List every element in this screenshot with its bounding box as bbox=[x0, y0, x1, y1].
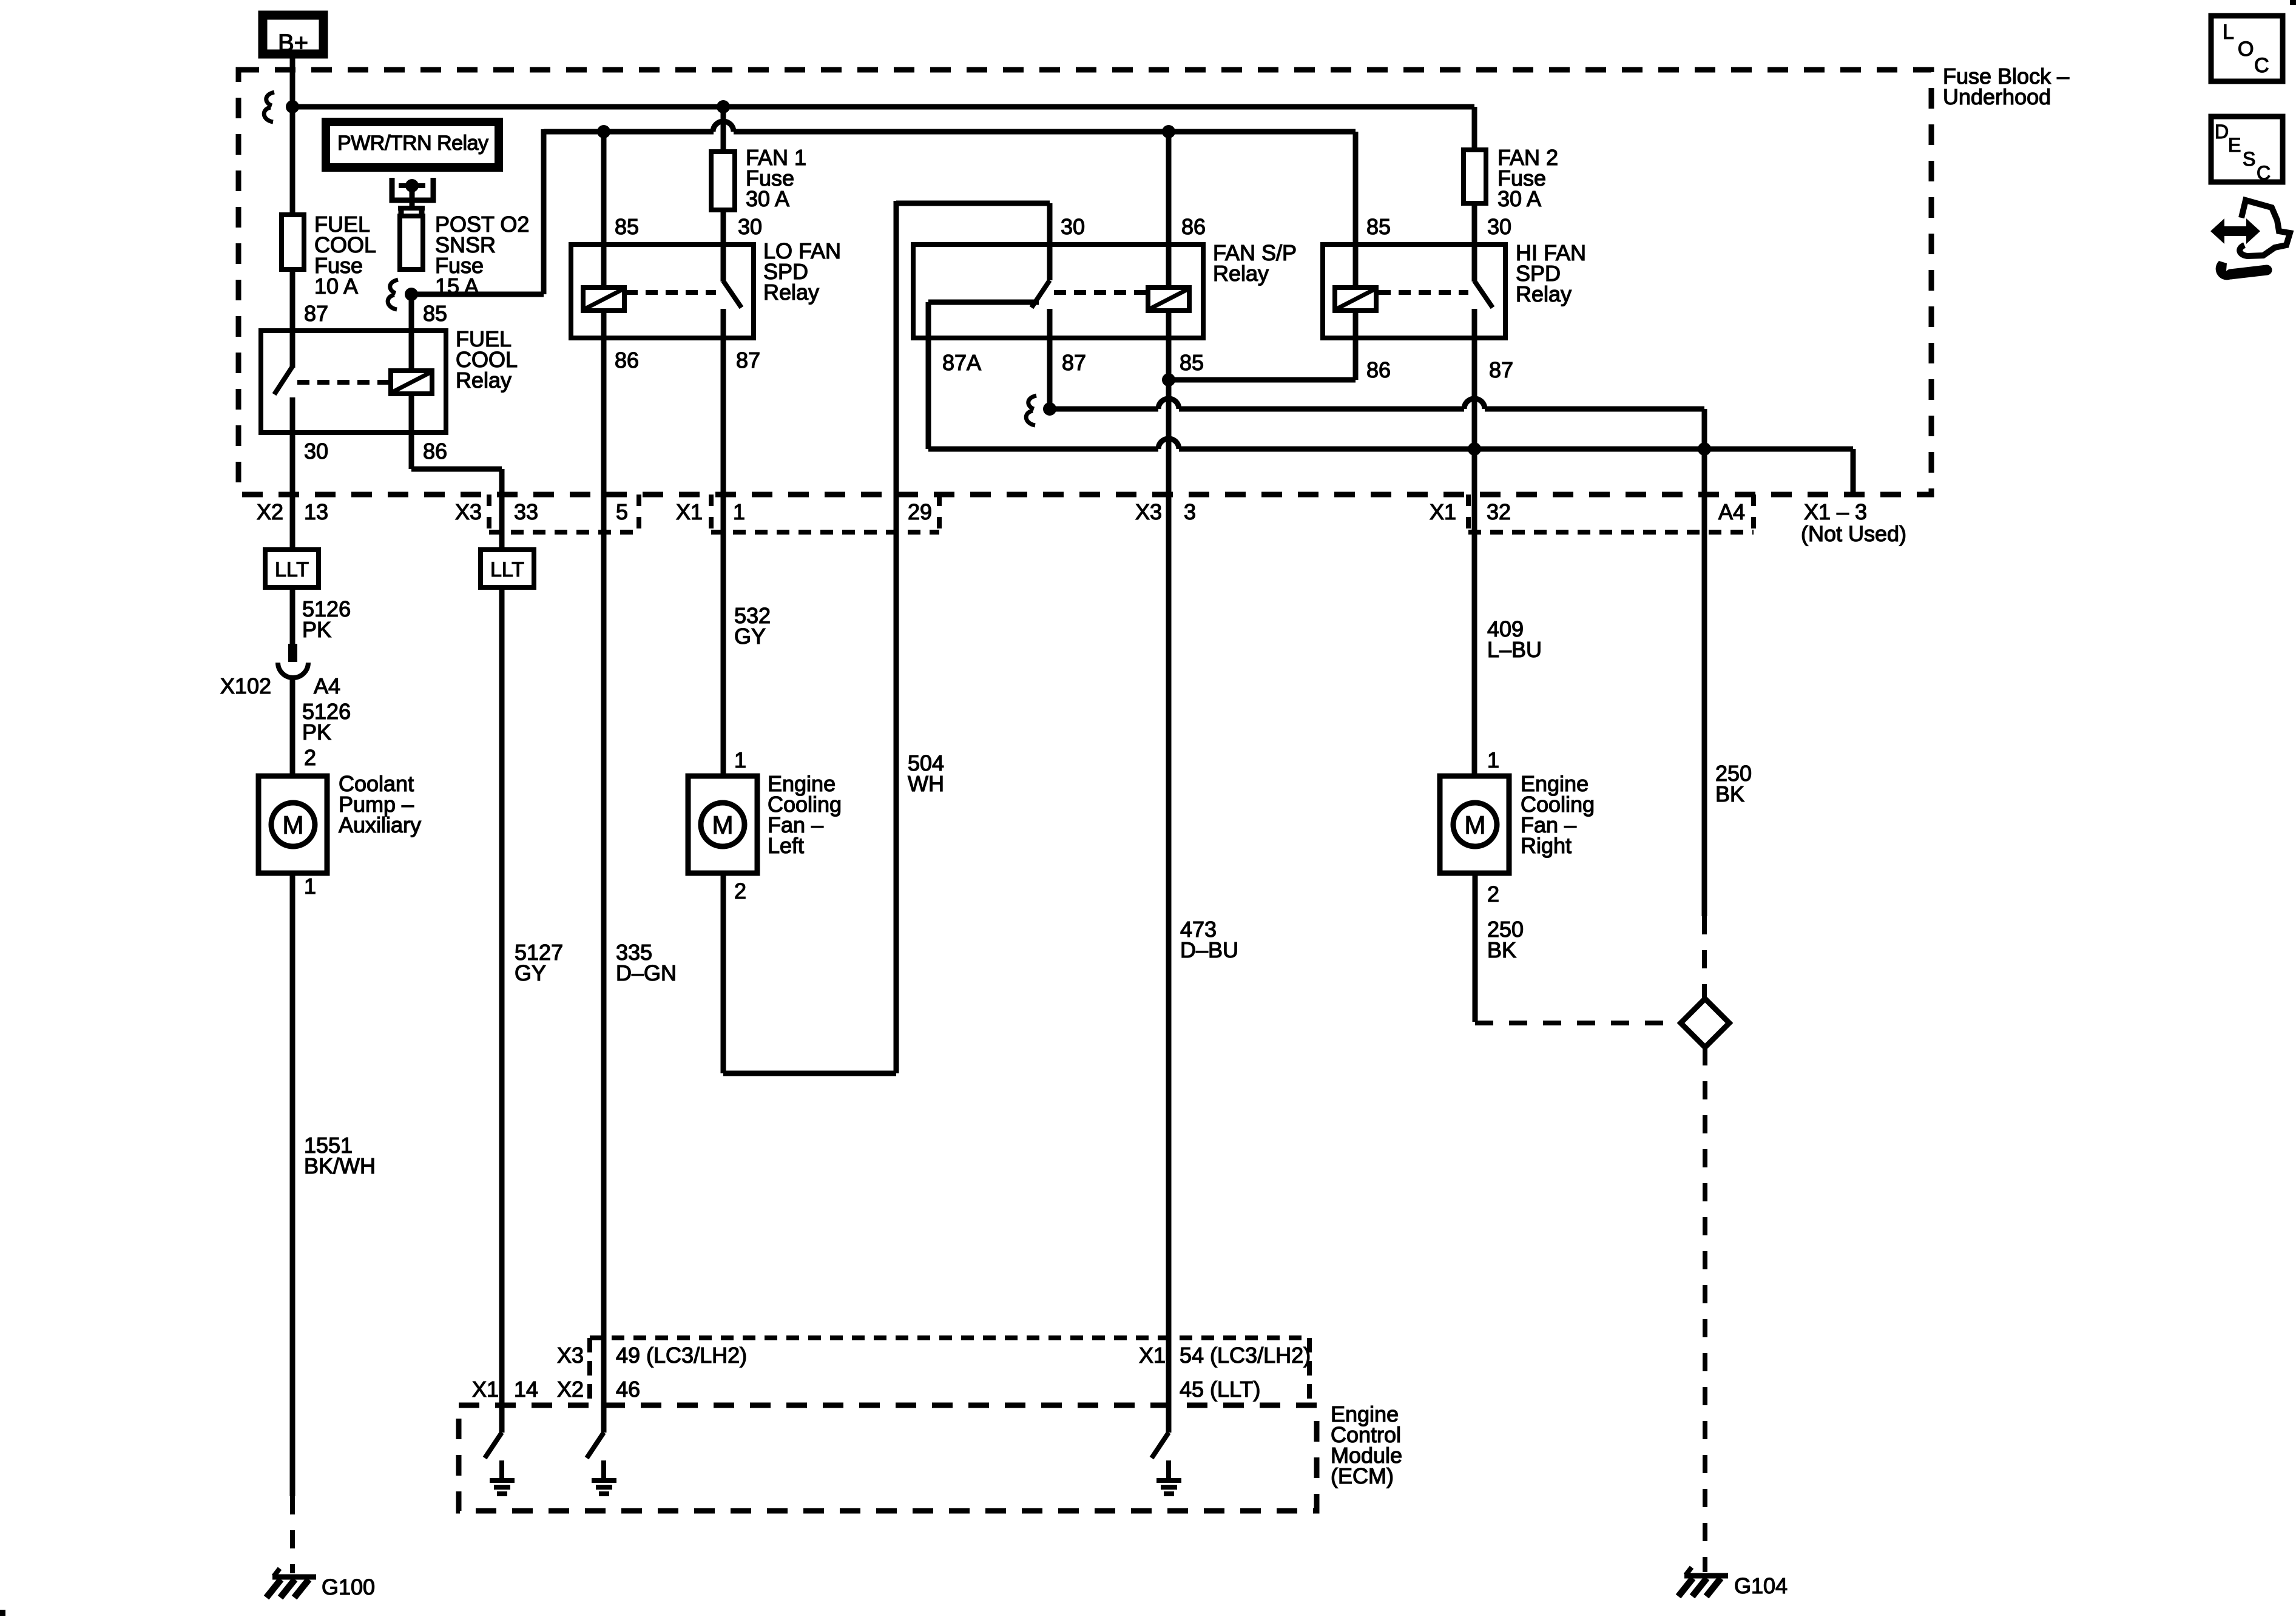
label: circuit 5126 PK lower bbox=[302, 699, 351, 744]
FAN S/P relay pin 30 feed jog from X1-29 line bbox=[896, 203, 1050, 280]
svg-text:BK/WH: BK/WH bbox=[304, 1153, 376, 1178]
svg-text:32: 32 bbox=[1487, 499, 1511, 524]
ECM internal switch to ground for 46/49 bbox=[587, 1433, 604, 1458]
wire-continues hook at left of B+ bus bbox=[264, 92, 274, 122]
label: FAN 1 Fuse 30 A bbox=[746, 145, 806, 211]
label: FAN S/P relay pins 87A 87 85 bbox=[942, 350, 1204, 375]
labels: connector pins X3 3 bbox=[1135, 499, 1196, 524]
wire: X1-29 / 504 WH circuit vertical bbox=[894, 201, 899, 1073]
FUEL COOL relay pin 86 wire jog to X3-33 bbox=[411, 394, 502, 550]
svg-text:87: 87 bbox=[736, 348, 760, 373]
label: FAN S/P relay pins 30 86 bbox=[1061, 214, 1206, 239]
FUEL COOL relay dashed actuator link bbox=[297, 380, 388, 385]
FAN S/P relay coil pin 85 wire to X3-3 and ECM bbox=[1166, 311, 1172, 1433]
relay K3: FAN S/P Relay box bbox=[913, 245, 1203, 338]
PWR/TRN Relay label box bbox=[326, 122, 499, 167]
FAN S/P relay pin 87A wire down bbox=[926, 302, 931, 449]
svg-text:30 A: 30 A bbox=[746, 186, 789, 211]
label: FUEL COOL Relay pins 87 85 bbox=[304, 301, 447, 326]
svg-text:86: 86 bbox=[423, 439, 447, 464]
B+ power terminal bbox=[263, 15, 323, 56]
svg-text:33: 33 bbox=[514, 499, 538, 524]
svg-text:Relay: Relay bbox=[1516, 282, 1572, 306]
DESC reference box bbox=[2211, 116, 2283, 184]
svg-text:Underhood: Underhood bbox=[1943, 84, 2051, 109]
labels: connector pins X3 33 5 bbox=[455, 499, 628, 524]
label: pump pin 2 bbox=[304, 745, 316, 770]
wire: 5126 PK from LLT to X102 bbox=[290, 587, 295, 645]
relay K2: LO FAN SPD Relay box bbox=[571, 245, 754, 338]
svg-text:X1: X1 bbox=[676, 499, 703, 524]
wire-continues hook left of FAN S/P 87 junction bbox=[1026, 396, 1036, 425]
label: FAN S/P Relay name bbox=[1213, 240, 1297, 286]
svg-text:D–GN: D–GN bbox=[616, 960, 677, 985]
in-line connector X102 pin A4 bbox=[278, 644, 308, 678]
svg-text:Relay: Relay bbox=[1213, 261, 1269, 286]
svg-text:PK: PK bbox=[302, 720, 331, 744]
label: POST O2 SNSR Fuse 15 A bbox=[435, 212, 529, 299]
svg-text:LLT: LLT bbox=[275, 558, 309, 581]
fuse: POST O2 SNSR Fuse 15 A bbox=[400, 216, 423, 269]
svg-text:M: M bbox=[283, 811, 304, 839]
label: right fan pin 1 bbox=[1487, 748, 1499, 772]
labels: ECM pins X1 14 X2 46 / 45 (LLT) bbox=[472, 1377, 1260, 1402]
svg-text:X1 – 3: X1 – 3 bbox=[1804, 499, 1867, 524]
ECM internal ground 2 bbox=[592, 1460, 616, 1494]
LO FAN relay pin 30 stub from FAN 1 fuse bbox=[721, 210, 726, 282]
wire: 5127 GY from LLT to ECM X1-14 bbox=[499, 587, 505, 1433]
label: FUEL COOL Relay name bbox=[456, 326, 518, 393]
labels: connector pin A4 bbox=[1718, 499, 1745, 524]
svg-text:L: L bbox=[2223, 21, 2234, 44]
icon: vehicle outline bbox=[2240, 200, 2290, 256]
svg-text:85: 85 bbox=[423, 301, 447, 326]
label: G104 bbox=[1734, 1573, 1788, 1598]
dotted bracket around pins 1 and 29 bbox=[711, 495, 939, 532]
labels: connector pins X2 13 bbox=[257, 499, 328, 524]
svg-text:86: 86 bbox=[615, 348, 639, 373]
wire: 250 BK dashed to splice bbox=[1475, 1021, 1680, 1025]
svg-text:(ECM): (ECM) bbox=[1331, 1463, 1394, 1488]
svg-text:D–BU: D–BU bbox=[1180, 937, 1238, 962]
svg-text:14: 14 bbox=[514, 1377, 538, 1402]
svg-text:86: 86 bbox=[1366, 357, 1391, 382]
svg-text:2: 2 bbox=[1487, 882, 1499, 906]
label: circuit 250 BK at right fan bbox=[1487, 917, 1524, 962]
svg-text:30: 30 bbox=[738, 214, 762, 239]
svg-text:85: 85 bbox=[615, 214, 639, 239]
LO FAN relay pin 86 wire to X1-5 and ECM bbox=[601, 311, 607, 1433]
svg-text:PWR/TRN Relay: PWR/TRN Relay bbox=[337, 132, 488, 155]
FUEL COOL relay switch blade bbox=[274, 366, 292, 394]
wire: 1551 BK/WH dashed tail bbox=[290, 1496, 295, 1573]
FUEL COOL relay coil bbox=[391, 371, 432, 394]
svg-text:2: 2 bbox=[734, 879, 746, 903]
svg-text:M: M bbox=[1465, 811, 1486, 839]
LO FAN relay switch blade bbox=[723, 281, 741, 308]
svg-text:30 A: 30 A bbox=[1497, 186, 1541, 211]
relay K4: HI FAN SPD Relay box bbox=[1323, 245, 1505, 338]
label: circuit 1551 BK/WH bbox=[304, 1133, 376, 1178]
svg-text:15 A: 15 A bbox=[435, 274, 479, 299]
svg-text:BK: BK bbox=[1715, 781, 1744, 806]
node: FAN S/P pin 87 junction bbox=[1043, 402, 1056, 416]
dotted bracket around pins 32 and A4 bbox=[1468, 495, 1754, 532]
label: HI FAN SPD Relay name bbox=[1516, 240, 1586, 306]
label: circuit 5126 PK upper bbox=[302, 596, 351, 642]
label: Fuse Block - Underhood bbox=[1943, 64, 2069, 109]
LOC reference box bbox=[2211, 16, 2283, 81]
label: Engine Control Module (ECM) bbox=[1331, 1402, 1402, 1488]
motor M3: Engine Cooling Fan - Right bbox=[1440, 776, 1509, 873]
FAN S/P relay 87A contact bbox=[928, 300, 1039, 305]
fuse block dashed border (Fuse Block - Underhood) bbox=[238, 70, 1931, 495]
label: HI FAN relay pins 86 87 bbox=[1366, 357, 1513, 382]
ECM upper connector dotted strip bbox=[590, 1338, 1309, 1405]
ground G104 symbol bbox=[1678, 1567, 1728, 1596]
svg-text:GY: GY bbox=[734, 624, 766, 649]
node: B+ bus tap junction bbox=[286, 100, 299, 113]
svg-text:Relay: Relay bbox=[763, 280, 819, 305]
dotted bracket around pins 33 and 5 bbox=[489, 495, 639, 532]
label: circuit 409 L-BU bbox=[1487, 616, 1542, 662]
node: junction 87A wire with A4 ground wire bbox=[1698, 442, 1711, 456]
svg-text:13: 13 bbox=[304, 499, 328, 524]
icon: component locator (double arrow) bbox=[2210, 218, 2260, 244]
relay K1: FUEL COOL Relay box bbox=[261, 331, 446, 433]
label: Engine Cooling Fan - Right bbox=[1521, 771, 1595, 858]
motor M1: Coolant Pump - Auxiliary bbox=[258, 776, 327, 873]
HI FAN relay coil bbox=[1335, 288, 1376, 311]
ECM internal switch to ground for X1-14 bbox=[485, 1433, 502, 1458]
HI FAN relay switch blade bbox=[1474, 281, 1493, 308]
svg-text:GY: GY bbox=[515, 960, 546, 985]
svg-text:C: C bbox=[2254, 54, 2269, 77]
node: junction 87A wire with HI FAN 87 wire bbox=[1468, 442, 1481, 456]
svg-text:G104: G104 bbox=[1734, 1573, 1788, 1598]
node: LO FAN relay coil tap on secondary bus bbox=[597, 125, 610, 138]
label: LO FAN relay pins 85 30 bbox=[615, 214, 762, 239]
wire: left fan return to X1-29 (504 WH) bbox=[723, 873, 896, 1073]
svg-text:1: 1 bbox=[1487, 748, 1499, 772]
svg-text:X3: X3 bbox=[455, 499, 482, 524]
node: POST O2 fuse junction bbox=[405, 288, 418, 301]
svg-text:85: 85 bbox=[1366, 214, 1391, 239]
svg-text:3: 3 bbox=[1184, 499, 1196, 524]
labels: connector pin X1-3 Not Used bbox=[1801, 499, 1906, 546]
svg-text:87: 87 bbox=[1062, 350, 1086, 375]
wire: PWR/TRN secondary bus bbox=[411, 121, 1356, 294]
label: circuit 504 WH bbox=[908, 751, 944, 796]
splice diamond on 250 BK bbox=[1681, 999, 1729, 1047]
ground G100 symbol bbox=[266, 1568, 316, 1598]
HI FAN relay pin 30 stub from FAN 2 fuse bbox=[1472, 203, 1477, 282]
labels: connector pins X1 32 bbox=[1430, 499, 1511, 524]
label: FAN 2 Fuse 30 A bbox=[1497, 145, 1558, 211]
wire: 5126 PK from X102 to pump bbox=[290, 677, 295, 776]
wire: X2-13 / 5126 PK drop from FUEL COOL 30 bbox=[290, 433, 295, 550]
label: Engine Cooling Fan - Left bbox=[768, 771, 842, 858]
svg-text:L–BU: L–BU bbox=[1487, 637, 1542, 662]
svg-text:X1: X1 bbox=[1430, 499, 1456, 524]
label: Coolant Pump - Auxiliary bbox=[339, 771, 421, 837]
svg-text:O: O bbox=[2238, 38, 2254, 61]
wire: 1551 BK/WH to G100 (solid part) bbox=[290, 873, 295, 1496]
wire: A4 250 BK vertical (solid part) bbox=[1702, 449, 1707, 916]
LLT option box on circuit 5127 bbox=[481, 550, 534, 587]
svg-text:X102: X102 bbox=[220, 673, 271, 698]
svg-text:29: 29 bbox=[908, 499, 932, 524]
svg-text:A4: A4 bbox=[1718, 499, 1745, 524]
label: circuit 335 D-GN bbox=[616, 940, 677, 985]
wire: FAN S/P 87A to X1-3 (horizontal with hop) bbox=[928, 439, 1853, 495]
svg-text:45 (LLT): 45 (LLT) bbox=[1180, 1377, 1260, 1402]
label: FUEL COOL Fuse 10 A bbox=[314, 212, 376, 299]
LO FAN relay coil bbox=[583, 288, 624, 311]
svg-text:49 (LC3/LH2): 49 (LC3/LH2) bbox=[616, 1343, 747, 1368]
svg-text:M: M bbox=[712, 811, 734, 839]
svg-text:E: E bbox=[2228, 134, 2241, 156]
LO FAN relay coil pin 85 wire bbox=[601, 132, 607, 288]
svg-text:X1: X1 bbox=[1139, 1343, 1166, 1368]
svg-text:Relay: Relay bbox=[456, 368, 512, 393]
svg-text:X3: X3 bbox=[1135, 499, 1162, 524]
connector bar with junction dot above POST O2 fuse bbox=[399, 179, 425, 208]
label: circuit 532 GY bbox=[734, 603, 771, 649]
ECM internal ground 3 bbox=[1156, 1460, 1181, 1494]
fuse: FAN 2 Fuse 30 A bbox=[1464, 150, 1486, 203]
LO FAN relay pin 87 wire to left fan bbox=[721, 309, 726, 776]
svg-text:D: D bbox=[2215, 121, 2229, 143]
svg-text:Right: Right bbox=[1521, 833, 1572, 858]
HI FAN relay pin 86 wire to FAN S/P 85 node bbox=[1169, 311, 1356, 380]
svg-text:2: 2 bbox=[304, 745, 316, 770]
label: LO FAN relay pins 86 87 bbox=[615, 348, 760, 373]
fuse clip above POST O2 fuse bbox=[398, 208, 425, 216]
label: circuit 250 BK at A4 drop bbox=[1715, 761, 1752, 806]
FAN S/P relay pin 87 stub bbox=[1047, 309, 1053, 409]
svg-text:30: 30 bbox=[1061, 214, 1085, 239]
FAN S/P relay switch blade bbox=[1032, 280, 1050, 308]
svg-text:54 (LC3/LH2): 54 (LC3/LH2) bbox=[1180, 1343, 1311, 1368]
svg-text:(Not Used): (Not Used) bbox=[1801, 521, 1906, 546]
connector symbol: PWR/TRN relay fuse socket (U bracket) bbox=[392, 178, 433, 200]
FUEL COOL relay pin 87 wire from fuse bbox=[290, 269, 295, 368]
FUEL COOL relay pin 30 stub bbox=[290, 397, 295, 433]
svg-text:30: 30 bbox=[1487, 214, 1511, 239]
label: circuit 473 D-BU bbox=[1180, 917, 1238, 962]
Engine Control Module dashed box bbox=[459, 1405, 1317, 1511]
svg-text:1: 1 bbox=[304, 874, 316, 899]
svg-text:Auxiliary: Auxiliary bbox=[339, 812, 421, 837]
label: left fan pin 1 bbox=[734, 748, 746, 772]
svg-text:1: 1 bbox=[733, 499, 745, 524]
icon: wrench bbox=[2216, 261, 2267, 280]
svg-text:10 A: 10 A bbox=[314, 274, 358, 299]
svg-text:X1: X1 bbox=[472, 1377, 499, 1402]
wire-continues hook left of POST O2 junction bbox=[388, 280, 398, 309]
node: FAN 1 fuse tap on B+ bus bbox=[717, 100, 730, 113]
label: HI FAN relay pins 85 30 bbox=[1366, 214, 1511, 239]
svg-text:A4: A4 bbox=[314, 673, 340, 698]
svg-text:5: 5 bbox=[616, 499, 628, 524]
node: FAN S/P relay coil tap on secondary bus bbox=[1162, 125, 1175, 138]
label: G100 bbox=[322, 1575, 375, 1599]
label: circuit 5127 GY bbox=[515, 940, 563, 985]
FAN S/P relay dashed actuator link bbox=[1054, 290, 1146, 295]
label: pump pin 1 bbox=[304, 874, 316, 899]
svg-text:LLT: LLT bbox=[490, 558, 524, 581]
wire: main B+ bus (top horizontal) bbox=[292, 107, 1474, 152]
labels: X102 and A4 bbox=[220, 673, 340, 698]
svg-text:X2: X2 bbox=[257, 499, 283, 524]
FAN S/P relay coil bbox=[1148, 288, 1189, 311]
wire: right fan 250 BK down (solid) bbox=[1473, 873, 1478, 1022]
svg-text:85: 85 bbox=[1180, 350, 1204, 375]
svg-text:G100: G100 bbox=[322, 1575, 375, 1599]
svg-text:WH: WH bbox=[908, 771, 944, 796]
svg-text:30: 30 bbox=[304, 439, 328, 464]
FUEL COOL relay pin 85 wire bbox=[409, 294, 414, 371]
label: LO FAN SPD Relay name bbox=[763, 238, 841, 305]
fuse: FUEL COOL Fuse 10 A bbox=[282, 215, 304, 269]
wire: A4 250 BK dashed tail to splice bbox=[1702, 916, 1707, 998]
node: junction FAN S/P 85 with HI FAN 86 bbox=[1162, 373, 1175, 387]
svg-text:C: C bbox=[2257, 162, 2271, 184]
motor M2: Engine Cooling Fan - Left bbox=[688, 776, 757, 873]
svg-text:X3: X3 bbox=[557, 1343, 584, 1368]
LLT option box on circuit 5126 bbox=[265, 550, 319, 587]
svg-text:PK: PK bbox=[302, 617, 331, 642]
labels: connector pins X1 1 29 bbox=[676, 499, 932, 524]
ECM internal switch to ground for 54/45 bbox=[1152, 1433, 1169, 1458]
FAN S/P relay coil pin 86 wire bbox=[1166, 132, 1172, 288]
ECM internal ground 1 bbox=[490, 1460, 515, 1494]
label: left fan pin 2 bbox=[734, 879, 746, 903]
svg-text:BK: BK bbox=[1487, 937, 1516, 962]
svg-text:X2: X2 bbox=[557, 1377, 584, 1402]
LO FAN relay dashed actuator link bbox=[626, 290, 716, 295]
wire: 250 BK dashed to G104 bbox=[1703, 1047, 1707, 1572]
label: right fan pin 2 bbox=[1487, 882, 1499, 906]
labels: ECM pins X3 49 (LC3/LH2) / X1 54 (LC3/LH2) bbox=[557, 1343, 1311, 1368]
fuse: FAN 1 Fuse 30 A bbox=[711, 107, 735, 210]
svg-text:87: 87 bbox=[1489, 357, 1513, 382]
svg-text:87: 87 bbox=[304, 301, 328, 326]
wire: B+ feed vertical into fuse block bbox=[290, 57, 295, 215]
svg-text:S: S bbox=[2243, 148, 2255, 170]
svg-text:Left: Left bbox=[768, 833, 804, 858]
svg-text:87A: 87A bbox=[942, 350, 981, 375]
svg-text:46: 46 bbox=[616, 1377, 640, 1402]
svg-text:1: 1 bbox=[734, 748, 746, 772]
svg-text:86: 86 bbox=[1181, 214, 1206, 239]
HI FAN relay pin 87 wire to right fan bbox=[1472, 309, 1477, 776]
svg-text:B+: B+ bbox=[278, 30, 308, 56]
wire: FAN S/P 87 to A4 drop (horizontal with hops) bbox=[1050, 399, 1704, 449]
label: FUEL COOL Relay pins 30 86 bbox=[304, 439, 447, 464]
HI FAN relay dashed actuator link bbox=[1379, 290, 1468, 295]
